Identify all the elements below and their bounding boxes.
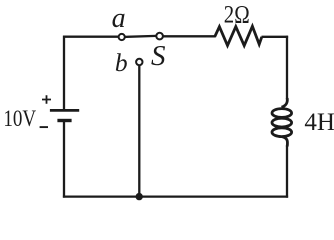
wire top-left horizontal bbox=[63, 36, 118, 38]
wire bottom horizontal bbox=[63, 195, 288, 197]
label 10V bbox=[3, 106, 36, 132]
wire right vertical upper bbox=[286, 36, 288, 100]
label a bbox=[112, 3, 126, 34]
label - (battery negative) bbox=[40, 126, 48, 128]
svg-text:S: S bbox=[151, 40, 166, 72]
label 4H bbox=[304, 109, 334, 136]
wire right vertical lower bbox=[286, 146, 288, 198]
wire pivot to resistor bbox=[163, 35, 216, 37]
wire resistor to top-right corner bbox=[262, 36, 289, 38]
svg-text:10V: 10V bbox=[3, 106, 36, 132]
battery V1 negative short plate bbox=[57, 119, 71, 122]
wire branch b vertical bbox=[138, 66, 140, 196]
label b bbox=[115, 48, 128, 77]
switch S blade bbox=[125, 36, 157, 37]
label + (battery positive) bbox=[42, 95, 51, 104]
junction node dot bbox=[136, 193, 143, 200]
wire left vertical lower bbox=[63, 122, 65, 198]
svg-text:2Ω: 2Ω bbox=[224, 1, 250, 28]
svg-text:b: b bbox=[115, 48, 128, 77]
switch contact a terminal circle bbox=[119, 34, 125, 40]
svg-text:a: a bbox=[112, 3, 126, 34]
battery V1 positive long plate bbox=[50, 109, 79, 112]
label 2ohm bbox=[224, 1, 250, 28]
svg-text:4H: 4H bbox=[304, 109, 334, 136]
label S bbox=[151, 40, 166, 72]
switch contact b terminal circle bbox=[136, 59, 142, 65]
switch S pivot terminal circle bbox=[156, 33, 163, 40]
resistor R 2ohm zigzag bbox=[215, 26, 262, 45]
wire left vertical upper bbox=[63, 36, 65, 110]
inductor L 4H coil bbox=[272, 98, 292, 147]
